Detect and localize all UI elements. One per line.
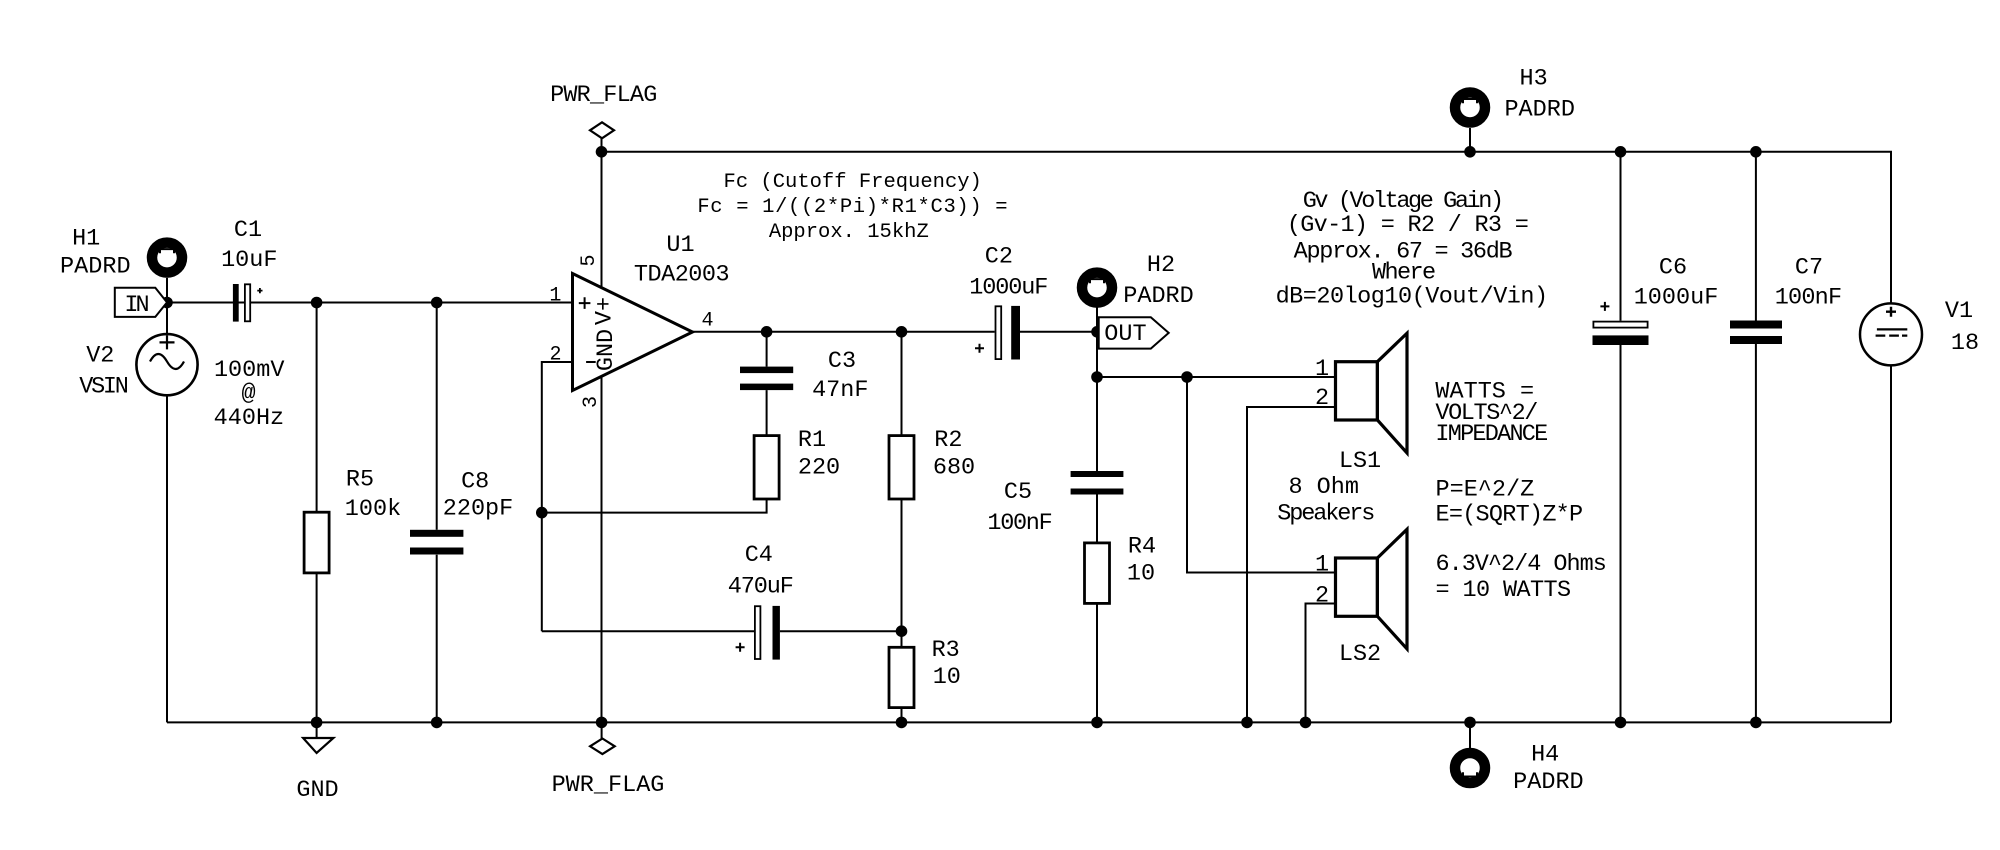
svg-text:Approx. 15khZ: Approx. 15khZ — [769, 221, 929, 244]
svg-text:440Hz: 440Hz — [214, 405, 285, 432]
pad H4 — [1455, 753, 1485, 783]
svg-text:U1: U1 — [666, 232, 694, 259]
svg-text:dB=20log10(Vout/Vin): dB=20log10(Vout/Vin) — [1276, 284, 1548, 311]
svg-text:LS2: LS2 — [1339, 641, 1381, 668]
resistor R3 — [889, 647, 914, 707]
global label OUT — [1099, 317, 1169, 348]
pad H1 — [152, 243, 182, 273]
svg-text:47nF: 47nF — [812, 377, 868, 404]
svg-text:1000uF: 1000uF — [969, 275, 1047, 302]
source V1 — [1860, 303, 1922, 365]
svg-text:100k: 100k — [345, 496, 401, 523]
node top bus PWR junction — [596, 146, 608, 158]
svg-text:PWR_FLAG: PWR_FLAG — [550, 82, 656, 109]
svg-text:2: 2 — [1315, 582, 1329, 609]
svg-text:H3: H3 — [1519, 66, 1547, 93]
source V2 — [136, 334, 197, 395]
svg-text:GND: GND — [593, 329, 620, 371]
wire bottom bus — [167, 721, 1891, 723]
capacitor C8 — [410, 530, 463, 555]
svg-text:4: 4 — [701, 310, 713, 333]
svg-text:PADRD: PADRD — [1513, 769, 1584, 796]
svg-text:OUT: OUT — [1104, 321, 1146, 348]
svg-text:VSIN: VSIN — [79, 373, 127, 400]
wire pin2 to feedback — [542, 362, 573, 631]
node H4 junction — [1464, 717, 1476, 729]
wire C8 top — [436, 303, 438, 530]
speaker LS2 — [1336, 529, 1408, 649]
node feedback junction — [536, 507, 548, 519]
node C6 top junction — [1615, 146, 1627, 158]
node C7 top junction — [1750, 146, 1762, 158]
svg-text:100nF: 100nF — [1775, 284, 1842, 311]
wire speaker net LS1 pin1 — [1097, 376, 1336, 378]
node LS2 pin2 bottom junction — [1300, 717, 1312, 729]
svg-text:R5: R5 — [346, 467, 374, 494]
wire C6 top — [1620, 152, 1622, 321]
node C8 top junction — [431, 297, 443, 309]
svg-text:LS1: LS1 — [1339, 448, 1381, 475]
svg-text:Speakers: Speakers — [1277, 500, 1374, 527]
node OUT junction — [1091, 326, 1103, 338]
wire C6 bottom — [1620, 345, 1622, 722]
wire R2 bottom — [901, 499, 903, 647]
wire H4 stub — [1469, 722, 1471, 748]
wire V2 top — [166, 303, 168, 335]
resistor R5 — [304, 512, 329, 573]
node C7 bottom junction — [1750, 717, 1762, 729]
svg-text:C8: C8 — [461, 469, 489, 496]
wire input net — [167, 302, 573, 304]
wire GND stub — [316, 722, 318, 738]
node C6 bottom junction — [1615, 717, 1627, 729]
node R3 bottom junction — [896, 717, 908, 729]
svg-text:1000uF: 1000uF — [1634, 284, 1719, 311]
svg-text:220pF: 220pF — [443, 496, 514, 523]
svg-text:3: 3 — [580, 396, 603, 408]
node GND junction — [311, 717, 323, 729]
wire pin5 — [601, 152, 603, 288]
wire C5 to R4 — [1096, 495, 1098, 543]
svg-text:C1: C1 — [234, 217, 262, 244]
svg-text:680: 680 — [933, 455, 975, 482]
wire C7 bottom — [1755, 344, 1757, 722]
power flag top — [590, 122, 614, 138]
wire C3 to R1 — [766, 390, 768, 436]
svg-text:100nF: 100nF — [987, 510, 1051, 537]
resistor R2 — [889, 436, 914, 499]
svg-text:GND: GND — [296, 777, 338, 804]
wire top bus — [602, 152, 1892, 304]
svg-text:Gv (Voltage Gain): Gv (Voltage Gain) — [1303, 188, 1502, 215]
svg-text:(Gv-1) = R2 / R3 =: (Gv-1) = R2 / R3 = — [1287, 212, 1528, 239]
svg-text:2: 2 — [549, 344, 561, 367]
svg-text:H1: H1 — [72, 226, 100, 253]
wire C4 left — [542, 630, 754, 632]
wire R4 bottom — [1096, 603, 1098, 722]
capacitor C1 — [233, 284, 263, 322]
wire C7 top — [1755, 152, 1757, 321]
svg-text:E=(SQRT)Z*P: E=(SQRT)Z*P — [1436, 502, 1583, 529]
wire R3 bottom — [901, 708, 903, 723]
wire C3 top — [766, 332, 768, 367]
wire H3 stub — [1469, 128, 1471, 152]
wire pin3 — [601, 376, 603, 722]
wire OUT node down — [1096, 332, 1098, 471]
svg-text:1: 1 — [1315, 552, 1329, 579]
wire LS2 pin1 branch — [1187, 377, 1336, 573]
svg-text:TDA2003: TDA2003 — [634, 261, 729, 288]
node LS1 pin2 bottom junction — [1241, 717, 1253, 729]
node speaker net junction — [1091, 371, 1103, 383]
svg-text:10: 10 — [933, 664, 961, 691]
wire output net — [693, 331, 995, 333]
svg-text:6.3V^2/4 Ohms: 6.3V^2/4 Ohms — [1436, 551, 1606, 578]
svg-text:Fc (Cutoff Frequency): Fc (Cutoff Frequency) — [724, 171, 982, 194]
wire LS2 pin2 — [1306, 604, 1336, 723]
node R3 top junction — [896, 625, 908, 637]
resistor R1 — [754, 436, 779, 499]
node H3 junction — [1464, 146, 1476, 158]
wire C2 right — [1020, 331, 1097, 333]
node pin3 bottom junction — [596, 717, 608, 729]
speaker LS1 — [1336, 333, 1408, 453]
capacitor C3 — [740, 367, 793, 391]
svg-text:10uF: 10uF — [221, 247, 277, 274]
wire C4 right — [780, 630, 902, 632]
svg-text:H4: H4 — [1531, 742, 1559, 769]
svg-text:PADRD: PADRD — [1504, 97, 1575, 124]
svg-text:1: 1 — [549, 285, 561, 308]
node IN junction — [161, 297, 173, 309]
svg-text:220: 220 — [798, 455, 840, 482]
wire H1 stub — [166, 278, 168, 303]
svg-text:PADRD: PADRD — [60, 254, 131, 281]
capacitor C2 — [975, 306, 1020, 360]
node C3 top junction — [761, 326, 773, 338]
capacitor C5 — [1071, 471, 1124, 495]
svg-text:R1: R1 — [798, 427, 826, 454]
svg-text:C7: C7 — [1795, 254, 1823, 281]
ground symbol — [303, 738, 333, 753]
global label IN — [115, 288, 167, 317]
node R2 top junction — [896, 326, 908, 338]
svg-text:V1: V1 — [1945, 298, 1973, 325]
wire R5 top — [316, 303, 318, 513]
node C8 bottom junction — [431, 717, 443, 729]
resistor R4 — [1085, 543, 1110, 604]
svg-text:R4: R4 — [1128, 533, 1156, 560]
node R5 top junction — [311, 297, 323, 309]
svg-text:C3: C3 — [828, 348, 856, 375]
svg-text:IN: IN — [124, 292, 148, 319]
svg-text:C6: C6 — [1659, 254, 1687, 281]
wire C8 bottom — [436, 555, 438, 723]
svg-text:V2: V2 — [86, 343, 114, 370]
wire V2 bottom to bus — [166, 395, 168, 722]
pad H3 — [1455, 93, 1485, 123]
svg-text:5: 5 — [578, 254, 601, 266]
wire R5 bottom — [316, 573, 318, 723]
svg-text:R3: R3 — [932, 637, 960, 664]
pad H2 — [1082, 273, 1112, 303]
svg-text:V+: V+ — [592, 297, 619, 325]
node R4 bottom junction — [1091, 717, 1103, 729]
svg-text:IMPEDANCE: IMPEDANCE — [1435, 421, 1547, 448]
svg-text:470uF: 470uF — [728, 574, 793, 601]
svg-text:18: 18 — [1951, 330, 1979, 357]
node LS2 branch junction — [1181, 371, 1193, 383]
svg-text:8 Ohm: 8 Ohm — [1288, 474, 1359, 501]
svg-text:R2: R2 — [934, 427, 962, 454]
svg-text:H2: H2 — [1147, 252, 1175, 279]
svg-text:@: @ — [241, 381, 255, 408]
capacitor C4 — [736, 606, 780, 660]
wire PWR_FLAG bottom stem — [601, 722, 603, 738]
power flag bottom — [590, 739, 615, 755]
svg-text:10: 10 — [1127, 560, 1155, 587]
wire feedback to R1 — [542, 499, 767, 513]
svg-text:C2: C2 — [985, 244, 1013, 271]
svg-text:PWR_FLAG: PWR_FLAG — [552, 772, 665, 799]
svg-text:2: 2 — [1315, 385, 1329, 412]
svg-text:Fc = 1/((2*Pi)*R1*C3)) =: Fc = 1/((2*Pi)*R1*C3)) = — [697, 196, 1008, 219]
svg-text:P=E^2/Z: P=E^2/Z — [1436, 477, 1535, 504]
wire LS1 pin2 — [1247, 407, 1336, 722]
capacitor C7 — [1730, 321, 1782, 345]
wire V1 bottom — [1890, 365, 1892, 722]
wire H2 stub — [1096, 308, 1098, 332]
svg-text:= 10 WATTS: = 10 WATTS — [1436, 577, 1571, 604]
wire PWR_FLAG top stem — [601, 138, 603, 152]
svg-text:1: 1 — [1315, 356, 1329, 383]
svg-text:C5: C5 — [1004, 479, 1032, 506]
wire R2 top — [901, 332, 903, 436]
svg-text:PADRD: PADRD — [1123, 283, 1194, 310]
op-amp U1 — [573, 274, 693, 391]
capacitor C6 — [1593, 302, 1649, 345]
svg-text:C4: C4 — [745, 542, 773, 569]
